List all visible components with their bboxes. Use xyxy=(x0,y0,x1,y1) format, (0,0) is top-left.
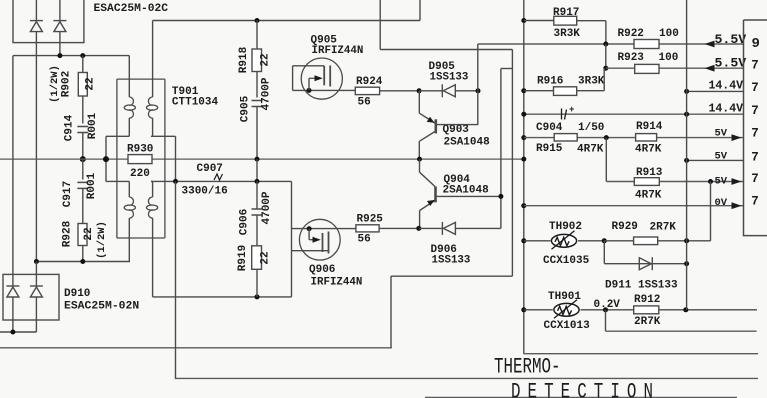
top rail y=20.5 xyxy=(153,20,420,22)
svg-text:C906: C906 xyxy=(239,209,251,235)
svg-text:100: 100 xyxy=(659,28,679,40)
svg-text:R930: R930 xyxy=(127,144,153,156)
wire diode D-a down through rails xyxy=(35,32,37,160)
T901 winding upper-right xyxy=(147,97,158,118)
junction base wire x=501 xyxy=(498,194,503,199)
svg-text:R914: R914 xyxy=(636,121,663,133)
wire R913 line (5V) xyxy=(606,181,743,183)
junction TH902 line xyxy=(521,238,526,243)
wire xyxy=(524,240,551,242)
svg-text:1SS133: 1SS133 xyxy=(430,72,469,84)
svg-text:1SS133: 1SS133 xyxy=(432,255,471,267)
wire y=331.2 xyxy=(606,330,757,332)
svg-text:TH901: TH901 xyxy=(548,291,581,303)
junction x=175.5 xyxy=(173,179,178,184)
wire C906 to R919 xyxy=(256,215,258,246)
svg-text:5.5V: 5.5V xyxy=(715,32,747,47)
svg-text:7: 7 xyxy=(751,151,759,165)
resistor R902 (22, 1/2W) xyxy=(78,73,87,97)
corner xyxy=(291,296,293,298)
junction top rail / x=524 xyxy=(521,18,526,23)
MOSFET Q906 IRFIZ44N xyxy=(299,219,340,260)
T901 right column down to y=297 xyxy=(152,218,154,297)
wire y=261.5 xyxy=(36,261,130,263)
capacitor C906 (4700P) xyxy=(252,209,263,215)
wire y=296.9 xyxy=(153,296,292,298)
svg-text:IRFIZ44N: IRFIZ44N xyxy=(312,45,364,57)
resistor R915 (4R7K) xyxy=(554,134,577,141)
wire xyxy=(524,20,554,22)
svg-text:4R7K: 4R7K xyxy=(635,144,662,156)
svg-text:5V: 5V xyxy=(715,151,728,163)
svg-text:5V: 5V xyxy=(715,128,728,140)
svg-text:D911 1SS133: D911 1SS133 xyxy=(605,280,678,292)
svg-text:0V: 0V xyxy=(715,197,728,209)
svg-text:R912: R912 xyxy=(634,294,660,306)
wire y=181.4 (gate drive lower) xyxy=(151,180,292,182)
svg-text:7: 7 xyxy=(751,59,759,73)
wire y=276.2 xyxy=(391,275,512,277)
wire diode D-b top xyxy=(59,0,61,21)
wire D911 line xyxy=(604,263,686,265)
wire 0V line xyxy=(524,205,744,207)
svg-text:7: 7 xyxy=(751,81,759,95)
long vertical x=512.4 xyxy=(511,50,513,277)
wire rail to R902 xyxy=(82,56,84,73)
junction main line / bracket xyxy=(103,156,109,162)
wire D910 left diode to y=332 xyxy=(12,297,14,332)
resistor R919 (22) xyxy=(252,246,262,269)
svg-text:(1/2W): (1/2W) xyxy=(49,65,61,103)
Q906 source rail to R925 xyxy=(292,228,356,230)
svg-text:R922: R922 xyxy=(618,28,644,40)
vertical x=710.5 xyxy=(710,182,712,241)
junction x=686 xyxy=(684,238,689,243)
long vertical x=523.8 xyxy=(523,0,525,354)
svg-text:3300/16: 3300/16 xyxy=(182,186,228,198)
wire 5V line (R915/R914) xyxy=(524,137,744,139)
svg-text:DETECTION: DETECTION xyxy=(511,379,660,398)
svg-text:R923: R923 xyxy=(618,52,645,64)
svg-text:Q903: Q903 xyxy=(443,124,470,136)
wire main line to C917 xyxy=(82,159,84,179)
wire D910 right diode down xyxy=(35,297,37,332)
bracket wire x=175.5 xyxy=(175,136,177,181)
svg-text:2SA1048: 2SA1048 xyxy=(443,185,490,197)
junction D905 cathode xyxy=(417,88,422,93)
wire R919 to y=297 xyxy=(256,269,258,297)
junction Q906 substrate xyxy=(307,226,312,231)
resistor R923 (100) xyxy=(635,64,659,73)
vertical x=605.5 lower xyxy=(605,310,607,331)
diode D911 1SS133 xyxy=(639,257,652,270)
wire rail to R918 xyxy=(256,21,258,50)
resistor R913 (4R7K) xyxy=(634,178,659,186)
Q906 channel bar xyxy=(328,232,330,254)
Q905 source rail to R924 xyxy=(293,89,356,91)
junction R914/R913 xyxy=(604,135,609,140)
T901 winding lower-right xyxy=(147,197,158,218)
tap wire y=181 left xyxy=(106,180,129,182)
wire R925 to D906 xyxy=(379,227,419,229)
arrow 5.5V (upper) xyxy=(705,41,715,48)
vertical to D911 xyxy=(603,241,605,264)
junction R922 line xyxy=(603,42,608,47)
resistor R912 (2R7K) xyxy=(634,306,659,314)
svg-text:4R7K: 4R7K xyxy=(577,144,604,156)
T901 shield bracket xyxy=(117,79,165,238)
capacitor C917 xyxy=(77,182,88,188)
junction D911 branch xyxy=(602,238,607,243)
capacitor C907 polarity mark xyxy=(214,174,223,180)
svg-text:7: 7 xyxy=(751,172,759,186)
Q905 gate bar xyxy=(323,66,325,85)
Q906 substrate stub xyxy=(308,229,310,240)
svg-text:R913: R913 xyxy=(636,167,663,179)
tap wire y=136 right xyxy=(151,135,176,137)
capacitor C905 (4700P) xyxy=(252,101,263,107)
long vertical x=175.5 xyxy=(175,181,177,378)
junction main line / C914 column xyxy=(80,156,86,162)
T901 left column lower wire xyxy=(128,181,130,197)
svg-text:+: + xyxy=(569,105,574,115)
wire y=68.2 (R923 / 5.5V line) xyxy=(606,67,744,69)
diode (right) in D910 xyxy=(30,286,43,297)
T901 right column upper wire xyxy=(152,21,154,98)
wire R918 to C905 xyxy=(256,72,258,98)
long bottom wire y=348 xyxy=(0,347,392,349)
wire R928 to junction xyxy=(82,246,84,262)
junction R919 bottom xyxy=(255,294,260,299)
svg-text:56: 56 xyxy=(358,97,371,109)
capacitor C914 xyxy=(77,127,88,133)
arrow 5.5V (lower) xyxy=(705,65,715,72)
svg-text:D910: D910 xyxy=(64,288,90,300)
junction TH901 line xyxy=(521,307,526,312)
junction 14.4V line 2 xyxy=(684,112,689,117)
arrow 0V xyxy=(732,202,742,209)
junction R915 line xyxy=(521,135,526,140)
svg-text:3R3K: 3R3K xyxy=(554,28,581,40)
wire D905 anode xyxy=(455,90,478,92)
svg-text:22: 22 xyxy=(85,77,97,90)
wire y=44 (R922 / 5.5V line) xyxy=(478,43,744,45)
Q904 base wire y=196.4 xyxy=(436,195,501,197)
diode (left) in top pack xyxy=(30,21,43,32)
svg-text:4700P: 4700P xyxy=(261,191,273,224)
wire R929 to corner xyxy=(658,240,711,242)
svg-text:R924: R924 xyxy=(356,76,383,88)
resistor R922 (100) xyxy=(634,40,659,49)
junction y=181.4 x=257 xyxy=(255,179,260,184)
svg-text:CCX1013: CCX1013 xyxy=(544,320,591,332)
vertical x=391 xyxy=(390,276,392,348)
Q906 gate bar xyxy=(322,233,324,252)
wire 14.4V line 2 (C904 line) xyxy=(524,113,744,115)
main horizontal line y=159 xyxy=(0,158,524,160)
svg-text:9: 9 xyxy=(752,36,760,52)
T901 left column to tap xyxy=(128,118,130,136)
junction main line end xyxy=(521,157,526,162)
wire R924 to D905 xyxy=(380,90,420,92)
wire to C906 xyxy=(256,181,258,209)
wire xyxy=(524,309,553,311)
svg-text:4R7K: 4R7K xyxy=(635,190,662,202)
svg-text:(1/2W): (1/2W) xyxy=(96,221,108,259)
wire R916 to corner xyxy=(577,90,605,92)
junction R923 line xyxy=(603,66,608,71)
resistor R918 (22) xyxy=(252,49,262,72)
wire xyxy=(604,240,633,242)
svg-text:R925: R925 xyxy=(357,214,384,226)
wire main line to y=181.4 xyxy=(256,159,258,181)
svg-text:22: 22 xyxy=(83,227,95,240)
resistor R917 (3R3K) xyxy=(554,16,577,25)
svg-text:R929: R929 xyxy=(612,221,638,233)
svg-text:7: 7 xyxy=(751,127,759,141)
vertical x=478 xyxy=(477,44,479,125)
Q906 gate bracket vertical x=291.5 xyxy=(291,181,293,297)
resistor R924 (56) xyxy=(355,87,379,94)
Q905 substrate arrow xyxy=(309,77,318,79)
junction R916 line xyxy=(521,88,526,93)
wire C905 to main line xyxy=(256,107,258,160)
svg-text:7: 7 xyxy=(751,195,759,209)
wire x=13 down to D910 xyxy=(12,56,14,286)
resistor R925 (56) xyxy=(356,225,379,232)
svg-text:5V: 5V xyxy=(715,176,728,188)
svg-text:R916: R916 xyxy=(537,76,563,88)
diode pack box (top left, ESAC25M-02C) xyxy=(13,0,84,43)
diode (left) in D910 xyxy=(6,286,19,297)
svg-text:14.4V: 14.4V xyxy=(708,80,743,93)
wire xyxy=(419,227,443,229)
arrow 5V (line 3) xyxy=(732,178,742,185)
junction C904 line xyxy=(521,112,526,117)
svg-text:Q906: Q906 xyxy=(309,264,335,276)
svg-text:R902: R902 xyxy=(61,71,73,97)
Q905 gate bracket vertical xyxy=(292,66,294,91)
svg-text:3R3K: 3R3K xyxy=(578,76,605,88)
arrow 5V (line 1) xyxy=(732,134,742,141)
vertical wire x=380 from top xyxy=(379,0,381,50)
wire 14.4V line 1 xyxy=(687,90,744,92)
svg-text:R915: R915 xyxy=(536,143,563,155)
svg-text:CTT1034: CTT1034 xyxy=(172,97,219,109)
svg-text:THERMO-: THERMO- xyxy=(494,354,561,379)
junction xyxy=(57,53,62,58)
vertical x=606 (to R913) xyxy=(605,138,607,182)
svg-text:1/50: 1/50 xyxy=(578,122,604,134)
Q906 substrate arrow xyxy=(309,239,316,241)
svg-text:100: 100 xyxy=(659,52,679,64)
T901 left column to y=261.5 xyxy=(128,218,130,262)
junction main line x=257 xyxy=(255,157,260,162)
resistor R914 (4R7K) xyxy=(636,134,657,141)
wire C914 to main line xyxy=(82,133,84,160)
Q905 substrate stub xyxy=(308,78,310,90)
svg-text:R917: R917 xyxy=(553,7,579,19)
stub y=68.5 xyxy=(501,68,513,70)
svg-text:TH902: TH902 xyxy=(549,221,582,233)
junction Q903/Q904 on main line xyxy=(417,157,422,162)
stub xyxy=(151,180,153,182)
T901 left column upper wire xyxy=(128,56,130,97)
T901 right column to tap xyxy=(152,118,154,136)
svg-text:R928: R928 xyxy=(62,220,74,247)
wire R902 to C914 xyxy=(82,96,84,124)
svg-text:2SA1048: 2SA1048 xyxy=(444,137,491,149)
wire bottom edge y=397 xyxy=(425,396,737,398)
wire xyxy=(524,90,554,92)
svg-text:C917: C917 xyxy=(62,181,74,207)
junction xyxy=(80,53,85,58)
svg-text:R001: R001 xyxy=(86,172,98,199)
svg-text:C904: C904 xyxy=(536,122,563,134)
diode pack box D910 ESAC25M-02N xyxy=(3,274,59,320)
wire xyxy=(578,240,604,242)
svg-text:R001: R001 xyxy=(87,112,99,139)
junction xyxy=(10,330,15,335)
svg-text:C914: C914 xyxy=(64,114,76,141)
T901 winding upper-left xyxy=(124,97,135,118)
Q906 gate bottom lead xyxy=(292,250,329,252)
junction D911 anode end xyxy=(684,261,689,266)
svg-text:R918: R918 xyxy=(238,46,250,73)
wire R917 to corner xyxy=(577,20,606,22)
wire diode D-b to rail xyxy=(59,32,61,56)
wire x=36 into D910 xyxy=(35,262,37,287)
vertical x=606 R922-R923 xyxy=(605,44,607,68)
diode D905 1SS133 xyxy=(442,84,455,97)
vertical x=606 upper xyxy=(605,21,607,44)
wire xyxy=(581,309,634,311)
junction 5V branch xyxy=(684,158,689,163)
junction 0V line xyxy=(521,203,526,208)
wire y=353.7 xyxy=(523,353,758,355)
junction top rail / R918 xyxy=(255,18,260,23)
wire R912 to right xyxy=(659,309,757,311)
svg-text:C907: C907 xyxy=(197,163,223,175)
junction xyxy=(34,259,39,264)
thermistor TH901 CCX1013 xyxy=(554,300,579,319)
svg-text:56: 56 xyxy=(358,234,371,246)
wire x=36 to junction y=261 xyxy=(35,159,37,261)
capacitor C904 mark (1/50) xyxy=(562,109,567,120)
junction xyxy=(80,259,85,264)
junction Q904 emitter / D906 xyxy=(416,226,421,231)
svg-text:7: 7 xyxy=(751,104,759,118)
wire y=332 xyxy=(0,331,36,333)
wire D906 anode to corner xyxy=(455,227,501,229)
wire C917 to R928 xyxy=(82,188,84,223)
svg-text:22: 22 xyxy=(260,53,272,66)
bracket wire x=106 xyxy=(105,136,107,181)
MOSFET Q905 IRFIZ44N xyxy=(301,58,342,99)
svg-text:4700P: 4700P xyxy=(261,77,273,110)
svg-text:IRFIZ44N: IRFIZ44N xyxy=(311,277,363,289)
long vertical x=686.6 xyxy=(686,0,688,310)
svg-text:2R7K: 2R7K xyxy=(650,222,677,234)
svg-text:0.2V: 0.2V xyxy=(594,299,621,311)
wire diode D-a top xyxy=(35,0,37,21)
junction D905 anode xyxy=(476,88,481,93)
svg-text:CCX1035: CCX1035 xyxy=(543,255,590,267)
Q903 base wire y=124.6 xyxy=(436,124,478,126)
junction x=686 end xyxy=(683,307,688,312)
vertical x=604 (R916 to R923 line) xyxy=(603,68,605,91)
vertical x=420 from top xyxy=(419,0,421,21)
thermistor TH902 CCX1035 xyxy=(551,231,576,250)
resistor R916 (3R3K) xyxy=(554,87,577,96)
junction 0.2V node xyxy=(603,307,608,312)
transistor Q904 2SA1048 (PNP) xyxy=(420,159,436,228)
svg-text:R919: R919 xyxy=(237,245,249,271)
Q905 channel bar xyxy=(329,66,331,87)
diode D906 1SS133 xyxy=(442,222,455,235)
diode (right) in top pack xyxy=(53,21,66,32)
svg-text:ESAC25M-02C: ESAC25M-02C xyxy=(94,3,169,15)
junction 5V line 3 xyxy=(708,179,713,184)
svg-text:22: 22 xyxy=(260,251,272,264)
rail y=55.6 xyxy=(13,55,129,57)
svg-text:ESAC25M-02N: ESAC25M-02N xyxy=(64,301,139,313)
connector box (right edge) xyxy=(744,20,767,236)
wire y=378.4 xyxy=(175,377,758,379)
wire 5V line 2 xyxy=(687,159,744,161)
resistor R930 (220) xyxy=(128,155,152,164)
vertical x=501 (Q904 base feed) xyxy=(500,69,502,229)
svg-text:C905: C905 xyxy=(240,95,252,122)
T901 right column lower wire xyxy=(152,181,154,197)
wire y=49.5 xyxy=(380,49,512,51)
Q905 gate top lead xyxy=(293,65,325,67)
T901 winding lower-left xyxy=(124,197,135,218)
svg-text:2R7K: 2R7K xyxy=(634,316,661,328)
resistor R929 (2R7K) xyxy=(634,237,658,245)
junction Q905 substrate xyxy=(307,88,312,93)
resistor R928 (22, 1/2W) xyxy=(78,224,87,246)
junction 14.4V line 1 xyxy=(684,89,689,94)
tap wire y=136 left xyxy=(106,135,129,137)
svg-text:5.5V: 5.5V xyxy=(715,56,747,71)
transistor Q903 2SA1048 (PNP) xyxy=(419,91,436,159)
svg-text:14.4V: 14.4V xyxy=(708,102,743,115)
wire xyxy=(419,90,442,92)
svg-text:220: 220 xyxy=(130,168,150,180)
